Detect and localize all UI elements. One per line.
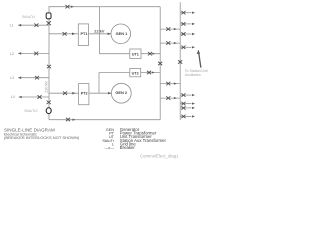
load line L2 wire — [18, 52, 49, 54]
right tie vertical wire — [159, 7, 161, 120]
breaker above StAuTr2 — [47, 101, 51, 105]
breaker tie 2 — [166, 41, 170, 45]
svg-text:StAuTr: StAuTr — [102, 139, 114, 143]
unit 1 tap vertical wire — [98, 7, 100, 54]
tie wire 1 (right tie to aux bus) — [160, 28, 180, 30]
wire PT2 to GEN2 — [89, 92, 112, 94]
wire UT1 to right tie — [141, 53, 160, 55]
arrowhead on top tie — [71, 6, 74, 8]
station aux transformer StAuTr1 — [46, 13, 51, 19]
feeder stub 3 — [180, 33, 191, 35]
arrowhead L1 — [18, 24, 21, 27]
wire UT2 to right tie — [141, 72, 161, 74]
breaker main 2 — [63, 91, 67, 95]
svg-text:220 kV: 220 kV — [44, 81, 48, 93]
feeder stub 1 — [180, 12, 191, 14]
breaker on bottom tie — [66, 118, 70, 122]
arrowhead into GEN2 — [108, 92, 111, 95]
load line L4 wire — [19, 96, 49, 98]
svg-text:L1: L1 — [10, 24, 14, 28]
svg-text:StAuTr1: StAuTr1 — [22, 15, 35, 19]
annotation arrow to auxiliaries — [199, 54, 201, 68]
station aux transformer StAuTr2 — [46, 108, 51, 114]
breaker L4 — [37, 95, 41, 99]
bus section breaker on grid bus — [47, 65, 51, 69]
power transformer PT1 — [78, 24, 88, 46]
svg-text:SINGLE-LINE DIAGRAM: SINGLE-LINE DIAGRAM — [4, 127, 55, 132]
generator GEN2 — [111, 83, 131, 103]
wire tap to UT2 — [99, 72, 130, 74]
wire PT1 to GEN1 — [89, 33, 112, 35]
breaker on top tie — [65, 5, 69, 9]
grid bus 220 kV (left vertical) — [48, 7, 50, 120]
arrowhead into GEN1 — [108, 33, 111, 36]
arrowhead L3 — [18, 76, 21, 79]
arrowhead tie 4 — [174, 97, 177, 99]
breaker L1 — [34, 23, 38, 27]
arrowhead into PT1 — [72, 33, 75, 36]
svg-text:UT2: UT2 — [132, 71, 139, 75]
svg-text:PT: PT — [109, 131, 115, 135]
top tie wire — [49, 6, 161, 8]
feeder stub 7 — [180, 107, 191, 109]
generator GEN1 — [111, 24, 131, 44]
arrowhead tie 2 — [174, 42, 177, 44]
arrowhead L2 — [18, 52, 21, 55]
svg-text:PT2: PT2 — [81, 91, 88, 95]
breaker on station aux bus — [178, 60, 182, 64]
svg-text:PT1: PT1 — [81, 32, 88, 36]
svg-text:(BREAKER INTERLOCKS NOT SHOWN): (BREAKER INTERLOCKS NOT SHOWN) — [4, 135, 80, 140]
tie wire 3 — [160, 83, 180, 85]
tie wire 2 — [160, 42, 180, 44]
svg-text:GEN: GEN — [106, 128, 114, 132]
main wire unit 1 (bus to PT1) — [49, 33, 78, 35]
breaker below StAuTr1 — [47, 21, 51, 25]
breaker UT2 out — [147, 71, 151, 75]
tie wire 4 — [160, 97, 180, 99]
breaker main 1 — [63, 32, 67, 36]
breaker tie 4 — [166, 96, 170, 100]
arrowhead tie 1 — [174, 28, 177, 30]
arrowhead L4 — [19, 96, 22, 99]
unit 2 tap vertical wire — [98, 73, 100, 94]
svg-text:GEN 1: GEN 1 — [116, 31, 129, 36]
arrowhead UT1 out — [152, 53, 155, 55]
load line L3 wire — [18, 77, 49, 79]
svg-text:L: L — [112, 142, 114, 146]
feeder stub 8 — [180, 115, 191, 117]
svg-text:Comms/Elect_diag1: Comms/Elect_diag1 — [140, 153, 179, 158]
arrowhead UT2 out — [152, 71, 155, 73]
breaker tie 3 — [166, 82, 170, 86]
breaker tie 1 — [166, 27, 170, 31]
svg-text:L3: L3 — [10, 76, 14, 80]
main wire unit 2 (bus to PT2) — [49, 92, 79, 94]
feeder stub 2 — [180, 23, 191, 25]
breaker L3 — [35, 76, 39, 80]
load line L1 wire — [18, 24, 49, 26]
unit transformer UT1 — [130, 49, 141, 59]
feeder stub 4 — [180, 46, 191, 48]
unit transformer UT2 — [130, 68, 141, 76]
svg-text:UT: UT — [109, 135, 115, 139]
svg-text:Breaker: Breaker — [120, 145, 136, 150]
svg-text:L2: L2 — [10, 52, 14, 56]
svg-text:StAuTr2: StAuTr2 — [24, 109, 37, 113]
power transformer PT2 — [79, 84, 89, 105]
bottom tie wire — [49, 119, 160, 121]
svg-text:UT1: UT1 — [132, 52, 139, 56]
svg-text:L4: L4 — [11, 95, 15, 99]
breaker L2 — [34, 52, 38, 56]
feeder stub 6 — [180, 103, 191, 105]
arrowhead into PT2 — [72, 92, 75, 95]
svg-text:—x—: —x— — [105, 146, 115, 150]
breaker UT1 out — [148, 52, 152, 56]
svg-text:Auxiliaries: Auxiliaries — [185, 73, 201, 77]
wire tap to UT1 — [99, 53, 129, 55]
feeder stub 5 — [180, 94, 191, 96]
svg-text:GEN 2: GEN 2 — [115, 90, 128, 95]
arrowhead on bottom tie — [73, 119, 76, 121]
station aux bus (right vertical) — [179, 2, 181, 120]
breaker on right tie vertical — [158, 62, 162, 66]
arrowhead tie 3 — [174, 82, 177, 84]
